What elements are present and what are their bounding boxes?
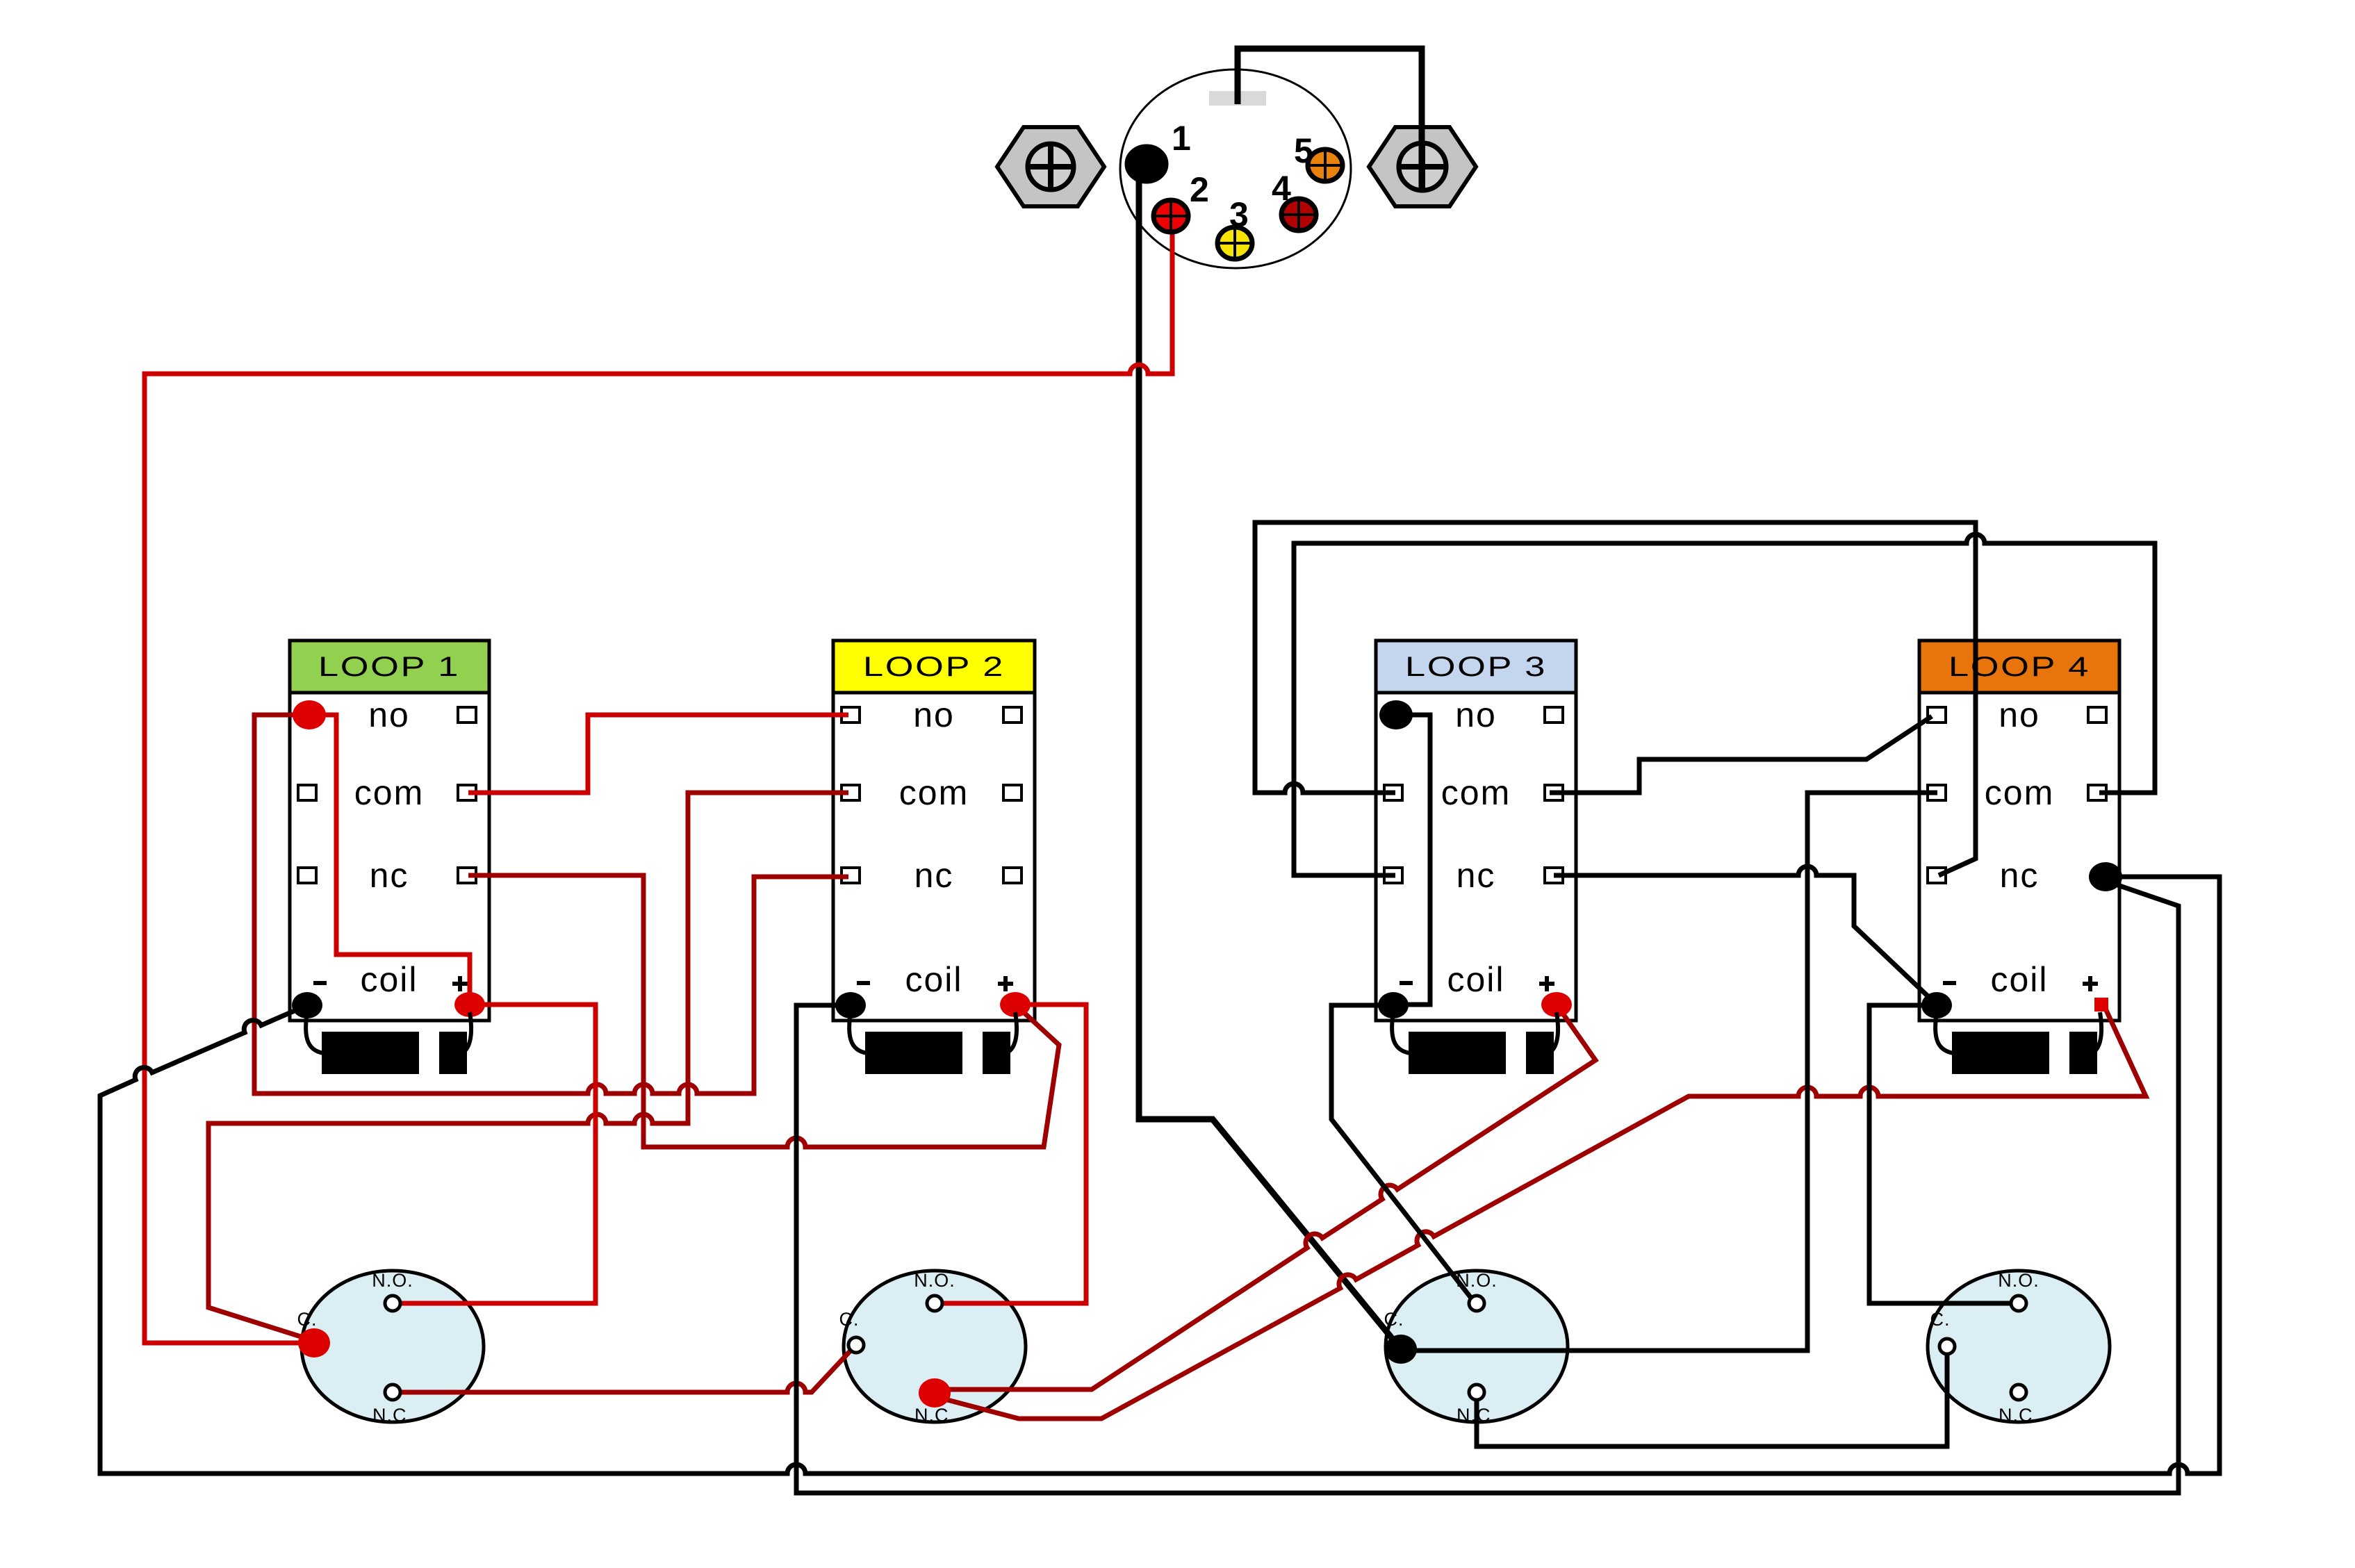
wire LOOP3 no to coil- (1396, 715, 1430, 1005)
wire LOOP4 coil- to valve4 NO (1869, 1005, 2012, 1303)
wire valve1 C to LOOP2 com (208, 793, 848, 1341)
wire LOOP1 com to LOOP2 no (468, 715, 848, 793)
svg-text:no: no (913, 695, 955, 734)
svg-text:C.: C. (297, 1309, 318, 1330)
wire LOOP1 coil+ to valve1 NO (400, 1005, 596, 1303)
relay coil block 4 (1935, 1012, 2101, 1074)
mounting screw left (997, 127, 1104, 206)
relay LOOP 3 box (1376, 641, 1576, 1021)
svg-text:LOOP 1: LOOP 1 (318, 652, 460, 682)
relay LOOP 1 box (290, 641, 489, 1021)
wire LOOP3 nc to LOOP4 com-right loop (1294, 534, 2155, 875)
valve 2 terminals (848, 1296, 951, 1408)
valve 1 terminals (298, 1296, 400, 1400)
svg-text:C.: C. (1384, 1309, 1404, 1330)
valve 4 terminals (1939, 1296, 2026, 1400)
svg-text:N.O.: N.O. (914, 1270, 955, 1291)
svg-text:N.C.: N.C. (372, 1405, 413, 1426)
wire LOOP2 coil+ to valve2 NO (942, 1005, 1086, 1303)
valve 4 circle (1928, 1270, 2110, 1426)
wire LOOP2 coil- bottom rail to LOOP4 nc (796, 881, 2178, 1493)
wire connector shield to right screw (1238, 49, 1422, 188)
connector body J1 (1120, 69, 1351, 268)
svg-text:coil: coil (360, 960, 418, 999)
svg-text:3: 3 (1229, 195, 1249, 234)
wire LOOP1 no to coil+ (320, 715, 470, 1005)
connector pin 2 (1154, 200, 1188, 232)
valve 2 circle (839, 1270, 1026, 1426)
LOOP 1 terminals (292, 700, 485, 1018)
wire LOOP3 coil- to valve3 NO (1331, 1005, 1475, 1303)
svg-text:LOOP 4: LOOP 4 (1948, 652, 2090, 682)
svg-text:LOOP 3: LOOP 3 (1405, 652, 1547, 682)
svg-text:2: 2 (1190, 170, 1209, 209)
left screw cross (1028, 145, 1074, 188)
wire pin2 to valve1 C (145, 222, 1172, 1343)
relay LOOP 2 box (833, 641, 1035, 1021)
connector pin 3 (1217, 227, 1252, 259)
relay coil block 1 (306, 1012, 471, 1074)
wire valve1 NC to valve2 C (400, 1350, 851, 1392)
wire LOOP3 com to LOOP4 no (1550, 716, 1932, 793)
connector pin 5 (1308, 149, 1343, 181)
wire pin1 to valve3 C (1139, 174, 1401, 1349)
svg-text:coil: coil (1447, 960, 1504, 999)
wire LOOP1 no to LOOP2 nc (254, 715, 848, 1094)
svg-text:nc: nc (2000, 856, 2040, 895)
valve 3 terminals (1385, 1296, 1484, 1400)
right screw cross (1399, 145, 1446, 189)
LOOP 4 terminals (1921, 862, 2122, 1018)
valve 3 circle (1384, 1270, 1568, 1426)
svg-text:com: com (899, 773, 969, 812)
svg-text:no: no (1455, 695, 1497, 734)
wire LOOP3 com to LOOP4 nc-left loop (1255, 522, 1976, 875)
svg-text:C.: C. (839, 1309, 860, 1330)
svg-text:N.O.: N.O. (372, 1270, 413, 1291)
relay LOOP 4 box (1919, 641, 2119, 1021)
wire LOOP3 nc to LOOP4 coil- (1554, 866, 1935, 1003)
svg-text:N.C.: N.C. (914, 1405, 955, 1426)
wire LOOP4 com to valve3 C (1401, 793, 1937, 1351)
svg-text:N.C.: N.C. (1999, 1405, 2039, 1426)
pin number labels (1172, 119, 1313, 234)
svg-text:no: no (1999, 695, 2040, 734)
svg-text:com: com (1985, 773, 2054, 812)
svg-text:C.: C. (1930, 1309, 1951, 1330)
LOOP 2 terminals (835, 992, 1031, 1018)
svg-text:com: com (1441, 773, 1511, 812)
mounting screw right (1369, 127, 1476, 206)
svg-text:coil: coil (1990, 960, 2048, 999)
svg-text:nc: nc (1457, 856, 1496, 895)
svg-text:N.O.: N.O. (1998, 1270, 2040, 1291)
svg-text:coil: coil (905, 960, 962, 999)
connector pin 4 (1281, 199, 1316, 231)
svg-text:nc: nc (914, 856, 954, 895)
LOOP 3 terminals (1378, 700, 1572, 1018)
svg-text:com: com (354, 773, 424, 812)
wire LOOP1 nc to LOOP2 coil+ (468, 875, 1059, 1147)
wire valve2 NC to LOOP3 coil+ (935, 1005, 1595, 1389)
relay coil block 3 (1392, 1012, 1558, 1074)
svg-text:5: 5 (1294, 131, 1313, 170)
svg-text:no: no (368, 695, 410, 734)
svg-text:4: 4 (1272, 169, 1291, 208)
relay coil block 2 (849, 1012, 1017, 1074)
svg-text:LOOP 2: LOOP 2 (863, 652, 1005, 682)
connector pin 1 (1127, 147, 1166, 181)
svg-text:nc: nc (370, 856, 409, 895)
wire LOOP1 coil- bottom rail to LOOP4 nc (100, 877, 2219, 1474)
svg-text:1: 1 (1172, 119, 1191, 158)
wire valve2 NC to LOOP4 coil+ (939, 1009, 2146, 1419)
valve 1 circle (297, 1270, 484, 1426)
wire valve3 NC to valve4 C (1477, 1353, 1947, 1446)
